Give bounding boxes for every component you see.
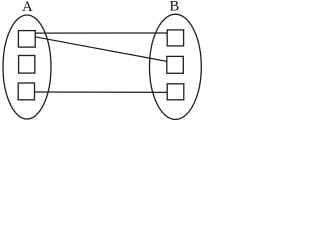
svg-text:B: B (169, 0, 179, 15)
svg-text:A: A (22, 0, 33, 15)
